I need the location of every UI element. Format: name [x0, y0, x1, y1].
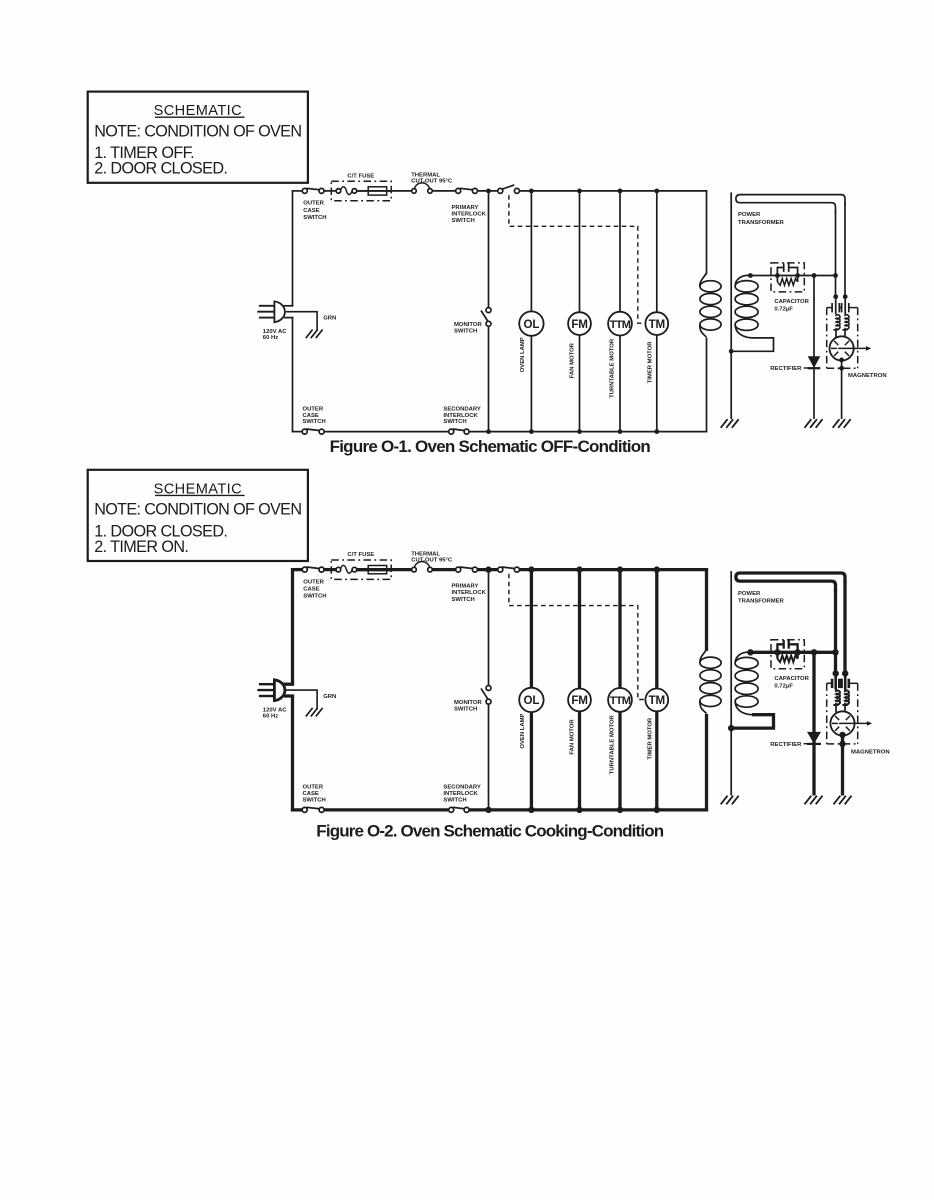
wire left rail lower (figure O-1)	[292, 317, 294, 433]
wire branch lower: timer motor TM (figure O-1)	[656, 335, 658, 432]
outer case switch (bottom) (figure O-1)	[306, 429, 320, 431]
svg-text:FM: FM	[571, 318, 587, 331]
svg-text:TTM: TTM	[610, 695, 631, 707]
magnetron filament feed-through capacitors (figure O-2)	[834, 674, 837, 690]
svg-text:CASE: CASE	[303, 587, 319, 593]
wire right rail lower (figure O-1)	[706, 338, 708, 433]
magnetron tube (figure O-2)	[830, 711, 854, 735]
wire bottom bus: secondary interlock to transformer (figure O-1)	[469, 431, 707, 433]
wire top bus: OCS to fuse (figure O-1)	[324, 190, 336, 192]
capacitor enclosure (dash-dot box) (figure O-2)	[771, 640, 804, 669]
wire top bus: thermal to interlock (figure O-1)	[432, 190, 455, 192]
svg-text:SWITCH: SWITCH	[452, 218, 475, 224]
wire monitor branch lower (figure O-1)	[488, 326, 490, 431]
svg-text:CASE: CASE	[303, 791, 319, 797]
timer motor TM motor circle (figure O-2)	[645, 689, 668, 712]
wire branch lower: turntable motor TTM (figure O-1)	[619, 336, 621, 432]
wire magnetron to ground (figure O-1)	[841, 361, 843, 420]
svg-text:OVEN LAMP: OVEN LAMP	[520, 714, 526, 749]
note box (figure O-2)	[88, 470, 308, 561]
wire HV bus (capacitor line) (figure O-1)	[750, 275, 835, 277]
note box title underline (figure O-2)	[155, 494, 245, 496]
wire top bus: thermal to interlock (figure O-2)	[432, 568, 455, 571]
monitor switch (figure O-1)	[481, 311, 488, 323]
svg-text:SWITCH: SWITCH	[443, 798, 466, 804]
wire bottom bus: rail to OCS (figure O-1)	[292, 431, 303, 433]
C/T fuse cartridge body (figure O-1)	[368, 187, 387, 195]
wire ground lead GRN (figure O-1)	[286, 312, 317, 331]
svg-text:PRIMARY: PRIMARY	[452, 584, 479, 590]
svg-text:SECONDARY: SECONDARY	[443, 406, 480, 412]
svg-text:TRANSFORMER: TRANSFORMER	[738, 220, 785, 226]
bleeder resistor inside capacitor box (figure O-2)	[776, 654, 778, 659]
wire monitor branch lower (figure O-2)	[488, 704, 490, 810]
svg-text:OUTER: OUTER	[303, 579, 324, 585]
svg-text:SECONDARY: SECONDARY	[443, 785, 480, 791]
note box (figure O-1)	[88, 92, 308, 183]
magnetron heater filament coils (figure O-1)	[836, 314, 840, 330]
svg-text:Figure O-1. Oven Schematic OFF: Figure O-1. Oven Schematic OFF-Condition	[330, 437, 651, 456]
wire branch upper: turntable motor TTM (figure O-2)	[618, 570, 621, 688]
wire branch upper: fan motor FM (figure O-1)	[579, 191, 581, 312]
C/T fuse cartridge body (figure O-2)	[368, 566, 387, 574]
svg-text:TIMER MOTOR: TIMER MOTOR	[647, 341, 653, 384]
svg-text:CASE: CASE	[303, 413, 319, 419]
wire plug to left rail (bottom) (figure O-2)	[284, 694, 294, 697]
wire monitor branch upper (figure O-2)	[488, 570, 490, 686]
svg-text:0.72µF: 0.72µF	[774, 307, 793, 313]
svg-text:FAN MOTOR: FAN MOTOR	[570, 719, 576, 755]
wire HV bus (capacitor line) (figure O-2)	[750, 651, 835, 654]
wire branch lower: fan motor FM (figure O-1)	[579, 335, 581, 432]
wire top bus left stub (figure O-2)	[292, 568, 303, 571]
timer motor TM motor circle (figure O-1)	[645, 312, 668, 335]
svg-text:RECTIFIER: RECTIFIER	[770, 366, 802, 372]
svg-text:RECTIFIER: RECTIFIER	[770, 742, 802, 748]
magnetron neck (figure O-1)	[835, 330, 837, 338]
wire branch upper: timer motor TM (figure O-2)	[655, 570, 658, 689]
timer switch (closed) (figure O-2)	[502, 567, 516, 569]
wire left rail upper (figure O-2)	[291, 568, 294, 685]
ground symbol at rectifier (figure O-1)	[805, 419, 812, 428]
svg-text:POWER: POWER	[738, 591, 761, 597]
junction: magnetron cathode (figure O-2)	[839, 732, 845, 738]
wire bottom bus: secondary interlock to transformer (figure O-2)	[469, 808, 708, 811]
magnetron antenna output arrow (figure O-1)	[838, 347, 867, 349]
svg-text:C/T FUSE: C/T FUSE	[347, 173, 374, 179]
junction: filament terminal right (figure O-1)	[843, 294, 848, 299]
C/T fuse enclosure (dash-dot box) (figure O-1)	[331, 181, 391, 200]
secondary interlock switch (figure O-2)	[453, 807, 465, 809]
AC line plug body (figure O-1)	[274, 301, 285, 322]
magnetron tube (figure O-1)	[830, 336, 854, 360]
junction: secondary top at HV bus (figure O-2)	[747, 649, 753, 655]
wire top bus left stub (figure O-1)	[292, 190, 303, 192]
junction: capacitor left node (figure O-1)	[775, 273, 780, 278]
junction: capacitor right node (figure O-1)	[795, 273, 800, 278]
wire top bus: timer switch to right corner (figure O-1)	[519, 190, 707, 192]
svg-text:OUTER: OUTER	[303, 406, 324, 412]
oven lamp OL motor circle (figure O-2)	[519, 688, 543, 712]
wire branch lower: timer motor TM (figure O-2)	[655, 711, 658, 810]
magnetron shield enclosure (dash-dot box) (figure O-1)	[827, 307, 832, 309]
wire branch lower: oven lamp OL (figure O-1)	[530, 336, 532, 432]
thermal cut-out 95C (figure O-1)	[414, 183, 430, 191]
junction: monitor branch bottom (figure O-2)	[485, 807, 491, 813]
power transformer primary winding (figure O-2)	[700, 649, 707, 662]
bleeder resistor inside capacitor box (figure O-1)	[776, 277, 778, 282]
wire plug to left rail (bottom) (figure O-1)	[284, 317, 293, 319]
wire bottom bus: OCS to secondary interlock (figure O-2)	[324, 808, 449, 811]
wire left rail upper (figure O-1)	[292, 190, 294, 307]
junction: fan motor FM bottom (figure O-1)	[577, 429, 582, 434]
svg-text:INTERLOCK: INTERLOCK	[452, 590, 487, 596]
wire left rail lower (figure O-2)	[291, 695, 294, 811]
wire plug to left rail (top) (figure O-2)	[284, 683, 295, 686]
junction: filament terminal left (figure O-2)	[833, 670, 839, 676]
wire filament lead left (figure O-2)	[834, 589, 837, 673]
secondary interlock switch (figure O-1)	[453, 429, 465, 431]
svg-text:NOTE: CONDITION OF OVEN: NOTE: CONDITION OF OVEN	[94, 123, 301, 141]
svg-text:GRN: GRN	[323, 694, 336, 700]
turntable motor TTM motor circle (figure O-1)	[608, 312, 632, 336]
junction: magnetron cathode (figure O-1)	[839, 358, 844, 363]
svg-text:TM: TM	[649, 318, 665, 331]
capacitor 0.72uF symbol (figure O-2)	[777, 644, 783, 651]
wire branch upper: oven lamp OL (figure O-2)	[530, 570, 533, 688]
transformer core / shield line (figure O-2)	[730, 571, 732, 795]
svg-text:60 Hz: 60 Hz	[263, 335, 278, 341]
svg-text:TM: TM	[649, 694, 665, 707]
wire top bus: timer switch to right corner (figure O-2)	[519, 568, 708, 571]
svg-text:MONITOR: MONITOR	[454, 700, 482, 706]
wire right rail upper (figure O-2)	[705, 568, 708, 651]
ground symbol at magnetron (figure O-1)	[833, 419, 840, 428]
magnetron antenna output arrow (figure O-2)	[839, 722, 868, 724]
svg-text:MAGNETRON: MAGNETRON	[851, 750, 890, 756]
svg-text:CAPACITOR: CAPACITOR	[774, 299, 809, 305]
svg-text:GRN: GRN	[323, 316, 336, 322]
svg-text:C/T FUSE: C/T FUSE	[347, 552, 374, 558]
wire right rail lower (figure O-2)	[705, 714, 708, 812]
AC plug prongs (figure O-2)	[259, 683, 274, 685]
power transformer HV secondary winding (figure O-2)	[735, 652, 750, 663]
outer case switch (top) (figure O-2)	[306, 567, 320, 569]
outer case switch (top) (figure O-1)	[306, 188, 320, 190]
junction: monitor branch top (figure O-1)	[486, 189, 491, 194]
svg-text:SWITCH: SWITCH	[303, 419, 326, 425]
wire top bus: interlock to timer switch (figure O-2)	[477, 568, 498, 571]
junction: HV bus at filament lead (figure O-1)	[833, 273, 838, 278]
note box title underline (figure O-1)	[155, 116, 245, 118]
svg-text:SWITCH: SWITCH	[454, 329, 477, 335]
svg-text:SWITCH: SWITCH	[303, 215, 326, 221]
junction: turntable motor TTM bottom (figure O-1)	[618, 429, 623, 434]
wire branch lower: fan motor FM (figure O-2)	[578, 711, 581, 810]
wire rectifier branch (figure O-1)	[813, 276, 815, 420]
junction: oven lamp OL top (figure O-1)	[529, 189, 534, 194]
wire filament lead right (figure O-1)	[844, 203, 846, 297]
wire top bus: fuse to thermal (figure O-1)	[357, 190, 412, 192]
junction: fan motor FM bottom (figure O-2)	[576, 807, 582, 813]
svg-text:SWITCH: SWITCH	[443, 419, 466, 425]
wire filament lead left (figure O-1)	[835, 211, 837, 297]
svg-text:NOTE: CONDITION OF OVEN: NOTE: CONDITION OF OVEN	[94, 501, 301, 519]
svg-text:CUT-OUT 95°C: CUT-OUT 95°C	[411, 179, 453, 185]
rectifier diode (figure O-1)	[808, 356, 821, 368]
dashed linkage: timer switch to timer motor (figure O-1)	[509, 195, 646, 323]
magnetron neck (figure O-2)	[835, 705, 837, 712]
monitor switch (figure O-2)	[481, 688, 488, 699]
junction: rectifier tap on HV bus (figure O-2)	[811, 649, 817, 655]
svg-text:2. TIMER ON.: 2. TIMER ON.	[94, 538, 188, 556]
svg-text:SWITCH: SWITCH	[303, 798, 326, 804]
ground symbol at plug (figure O-2)	[306, 708, 313, 717]
svg-text:PRIMARY: PRIMARY	[452, 205, 479, 211]
AC line plug body (figure O-2)	[274, 680, 285, 701]
wire branch lower: oven lamp OL (figure O-2)	[530, 712, 533, 810]
ground symbol at rectifier (figure O-2)	[805, 796, 812, 805]
svg-text:POWER: POWER	[738, 212, 761, 218]
svg-text:SWITCH: SWITCH	[452, 597, 475, 603]
svg-text:INTERLOCK: INTERLOCK	[443, 413, 478, 419]
magnetron shield enclosure (dash-dot box) (figure O-2)	[827, 682, 832, 684]
turntable motor TTM motor circle (figure O-2)	[608, 688, 632, 712]
wire top bus: interlock to timer switch (figure O-1)	[477, 190, 498, 192]
secondary filament winding hairpin (figure O-1)	[736, 195, 845, 213]
junction: timer motor TM bottom (figure O-1)	[654, 429, 659, 434]
svg-text:TRANSFORMER: TRANSFORMER	[738, 599, 785, 605]
wire magnetron to ground (figure O-2)	[841, 736, 844, 796]
svg-text:CASE: CASE	[303, 208, 319, 214]
transformer core / shield line (figure O-1)	[730, 192, 732, 419]
AC plug prongs (figure O-1)	[259, 305, 274, 307]
svg-text:INTERLOCK: INTERLOCK	[452, 212, 487, 218]
svg-text:OUTER: OUTER	[303, 785, 324, 791]
svg-text:OL: OL	[524, 694, 540, 707]
capacitor 0.72uF symbol (figure O-1)	[777, 268, 783, 275]
svg-text:60 Hz: 60 Hz	[263, 713, 278, 719]
wire secondary return to core (figure O-1)	[731, 338, 773, 351]
wire secondary return to core (figure O-2)	[731, 715, 773, 728]
junction: secondary top at HV bus (figure O-1)	[748, 273, 753, 278]
wire filament lead right (figure O-2)	[843, 581, 846, 674]
junction: HV bus at filament lead (figure O-2)	[832, 649, 838, 655]
wire branch upper: fan motor FM (figure O-2)	[578, 570, 581, 689]
junction: magnetron at shield box (figure O-2)	[839, 741, 845, 747]
secondary filament winding hairpin (figure O-2)	[736, 573, 845, 591]
C/T fuse contact circles and element (figure O-2)	[335, 569, 337, 571]
wire top bus: OCS to fuse (figure O-2)	[324, 568, 336, 571]
junction: capacitor left node (figure O-2)	[774, 649, 780, 655]
svg-text:2. DOOR CLOSED.: 2. DOOR CLOSED.	[94, 160, 227, 178]
wire top bus: fuse to thermal (figure O-2)	[357, 568, 412, 571]
junction: monitor branch bottom (figure O-1)	[486, 429, 491, 434]
primary interlock switch (figure O-1)	[460, 188, 474, 190]
svg-text:OL: OL	[524, 318, 540, 331]
svg-text:CUT-OUT 95°C: CUT-OUT 95°C	[411, 557, 453, 563]
svg-text:0.72µF: 0.72µF	[774, 684, 793, 690]
svg-text:OVEN LAMP: OVEN LAMP	[520, 337, 526, 372]
rectifier diode (figure O-2)	[807, 732, 821, 744]
svg-text:OUTER: OUTER	[303, 201, 324, 207]
svg-text:SWITCH: SWITCH	[303, 594, 326, 600]
wire branch upper: timer motor TM (figure O-1)	[656, 191, 658, 312]
svg-text:FAN MOTOR: FAN MOTOR	[570, 342, 576, 378]
svg-text:Figure O-2. Oven Schematic Coo: Figure O-2. Oven Schematic Cooking-Condi…	[316, 821, 663, 840]
C/T fuse contact circles and element (figure O-1)	[335, 190, 337, 192]
fan motor FM motor circle (figure O-2)	[568, 689, 591, 712]
junction: filament terminal left (figure O-1)	[833, 294, 838, 299]
svg-text:TTM: TTM	[610, 319, 631, 331]
fan motor FM motor circle (figure O-1)	[568, 312, 591, 335]
junction: turntable motor TTM top (figure O-2)	[617, 566, 623, 572]
magnetron heater filament coils (figure O-2)	[836, 690, 840, 705]
junction: timer motor TM bottom (figure O-2)	[654, 807, 660, 813]
svg-text:FM: FM	[571, 694, 587, 707]
wire monitor branch upper (figure O-1)	[488, 191, 490, 308]
wire bottom bus: OCS to secondary interlock (figure O-1)	[324, 431, 449, 433]
wire rectifier branch (figure O-2)	[812, 652, 815, 795]
power transformer primary winding (figure O-1)	[700, 273, 707, 286]
junction: rectifier tap on HV bus (figure O-1)	[812, 273, 817, 278]
wire right rail upper (figure O-1)	[706, 190, 708, 274]
junction: oven lamp OL bottom (figure O-1)	[529, 429, 534, 434]
junction: magnetron at shield box (figure O-1)	[839, 366, 844, 371]
C/T fuse enclosure (dash-dot box) (figure O-2)	[331, 560, 391, 579]
svg-text:TURNTABLE MOTOR: TURNTABLE MOTOR	[610, 338, 616, 398]
svg-text:MONITOR: MONITOR	[454, 322, 482, 328]
svg-text:CAPACITOR: CAPACITOR	[774, 676, 809, 682]
wire branch lower: turntable motor TTM (figure O-2)	[618, 712, 621, 810]
svg-text:MAGNETRON: MAGNETRON	[848, 373, 887, 379]
ground symbol at transformer core (figure O-2)	[721, 796, 728, 805]
thermal cut-out 95C (figure O-2)	[414, 562, 430, 570]
primary interlock switch (figure O-2)	[460, 567, 474, 569]
wire branch upper: oven lamp OL (figure O-1)	[530, 191, 532, 312]
junction: monitor branch top (figure O-2)	[485, 566, 491, 572]
wire branch upper: turntable motor TTM (figure O-1)	[619, 191, 621, 312]
dashed linkage: timer switch to timer motor (figure O-2)	[509, 574, 646, 700]
junction: secondary return at core (figure O-1)	[729, 349, 734, 354]
wire plug to left rail (top) (figure O-1)	[284, 305, 294, 307]
power transformer HV secondary winding (figure O-1)	[735, 275, 750, 286]
svg-text:TIMER MOTOR: TIMER MOTOR	[647, 717, 653, 760]
junction: timer motor TM top (figure O-2)	[654, 566, 660, 572]
junction: capacitor right node (figure O-2)	[794, 649, 800, 655]
oven lamp OL motor circle (figure O-1)	[519, 311, 543, 335]
junction: oven lamp OL bottom (figure O-2)	[528, 807, 534, 813]
junction: fan motor FM top (figure O-2)	[576, 566, 582, 572]
ground symbol at plug (figure O-1)	[306, 330, 313, 339]
junction: timer motor TM top (figure O-1)	[654, 189, 659, 194]
wire bottom bus: rail to OCS (figure O-2)	[291, 808, 302, 811]
outer case switch (bottom) (figure O-2)	[306, 807, 320, 809]
junction: turntable motor TTM bottom (figure O-2)	[617, 807, 623, 813]
capacitor enclosure (dash-dot box) (figure O-1)	[771, 263, 804, 292]
wire ground lead GRN (figure O-2)	[286, 690, 317, 709]
magnetron filament feed-through capacitors (figure O-1)	[835, 297, 837, 314]
svg-text:TURNTABLE MOTOR: TURNTABLE MOTOR	[610, 714, 616, 774]
timer switch (open) (figure O-1)	[501, 185, 514, 190]
svg-text:SWITCH: SWITCH	[454, 706, 477, 712]
junction: filament terminal right (figure O-2)	[842, 670, 848, 676]
ground symbol at magnetron (figure O-2)	[834, 796, 841, 805]
junction: turntable motor TTM top (figure O-1)	[618, 189, 623, 194]
junction: oven lamp OL top (figure O-2)	[528, 566, 534, 572]
ground symbol at transformer core (figure O-1)	[721, 419, 728, 428]
svg-text:INTERLOCK: INTERLOCK	[443, 791, 478, 797]
junction: fan motor FM top (figure O-1)	[577, 189, 582, 194]
junction: secondary return at core (figure O-2)	[728, 725, 734, 731]
